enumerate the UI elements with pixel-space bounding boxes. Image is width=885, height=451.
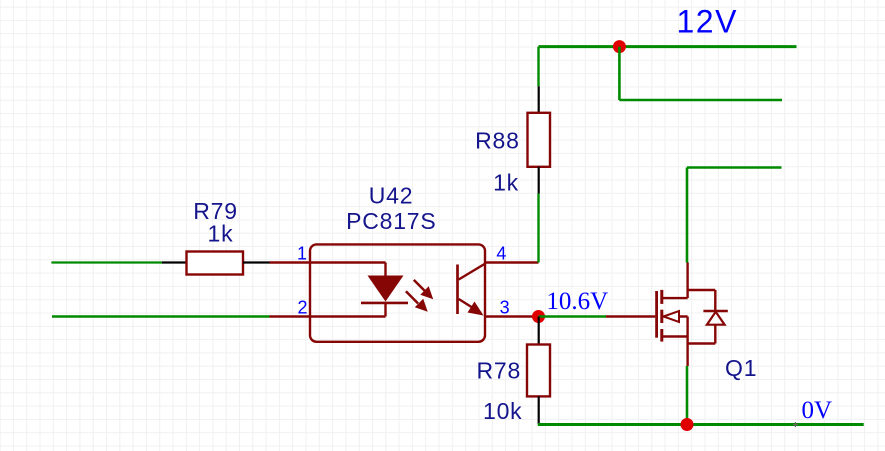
- U42 pin 4: [485, 261, 539, 263]
- svg-text:Q1: Q1: [725, 355, 757, 381]
- wire drain branch: [687, 168, 782, 263]
- resistor R78: [527, 317, 550, 425]
- U42 pin 3 number: [500, 298, 510, 318]
- U42 LED light arrow 1: [414, 280, 433, 299]
- optocoupler U42 body: [310, 244, 485, 341]
- R78 value 10k: [483, 398, 522, 424]
- net label 12V: [677, 3, 738, 39]
- wire R88 bottom to pin4: [537, 194, 539, 263]
- U42 pin 1 number: [297, 244, 307, 264]
- U42 phototransistor: [458, 264, 485, 316]
- transistor Q1 MOSFET: [606, 263, 688, 367]
- svg-text:PC817S: PC817S: [346, 208, 436, 234]
- R79 designator: [193, 198, 238, 224]
- net label 10.6V: [546, 288, 608, 315]
- net label 0V anchor: [793, 422, 798, 427]
- svg-text:4: 4: [496, 244, 506, 264]
- svg-text:1k: 1k: [493, 170, 519, 196]
- U42 pin 2: [270, 315, 386, 317]
- junction 0V: [681, 418, 694, 431]
- svg-text:10k: 10k: [483, 398, 522, 424]
- U42 pin 2 number: [297, 298, 307, 318]
- R88 designator: [475, 128, 520, 154]
- wire input top: [51, 261, 162, 263]
- wire 0V rail: [538, 423, 864, 426]
- wire 12V branch 2: [619, 47, 782, 100]
- svg-text:1: 1: [297, 244, 307, 264]
- resistor R88: [528, 86, 551, 193]
- Q1 designator: [725, 355, 757, 381]
- Q1 body diode: [688, 290, 728, 344]
- wire source to 0V: [686, 366, 689, 425]
- R78 designator: [477, 358, 522, 384]
- wire 12V rail: [539, 45, 797, 48]
- svg-text:R88: R88: [475, 128, 520, 154]
- svg-text:0V: 0V: [802, 397, 833, 424]
- U42 pin 1: [270, 261, 386, 263]
- R79 value 1k: [208, 221, 234, 247]
- svg-text:R78: R78: [477, 358, 522, 384]
- junction node 10.6V: [532, 310, 545, 323]
- svg-text:1k: 1k: [208, 221, 234, 247]
- svg-text:U42: U42: [369, 183, 414, 209]
- U42 value PC817S: [346, 208, 436, 234]
- U42 pin 4 number: [496, 244, 506, 264]
- svg-text:2: 2: [297, 298, 307, 318]
- R88 value 1k: [493, 170, 519, 196]
- junction 12V: [613, 40, 626, 53]
- wire gate: [539, 315, 607, 317]
- wire R88 top: [537, 47, 539, 87]
- U42 designator: [369, 183, 414, 209]
- resistor R79: [162, 252, 270, 275]
- svg-text:12V: 12V: [677, 3, 738, 39]
- svg-text:10.6V: 10.6V: [546, 288, 608, 315]
- U42 LED light arrow 2: [406, 291, 428, 311]
- wire input bottom: [52, 315, 270, 318]
- U42 pin 3: [485, 315, 539, 317]
- U42 LED: [361, 263, 408, 317]
- net label 0V: [802, 397, 833, 424]
- svg-text:3: 3: [500, 298, 510, 318]
